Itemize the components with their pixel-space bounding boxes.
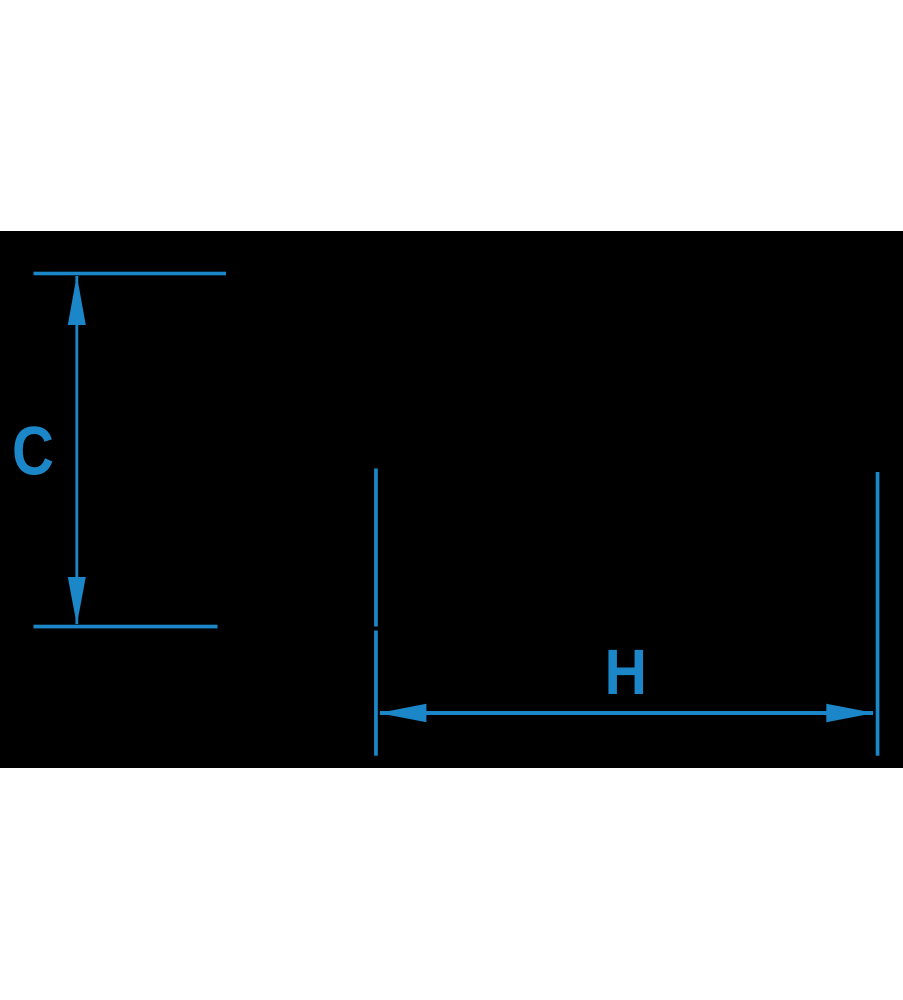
- black product band: [0, 231, 903, 768]
- H dimension left extension tick (upper part, above gap): [374, 469, 378, 627]
- C dimension top tick line: [34, 272, 227, 276]
- svg-text:C: C: [12, 414, 54, 490]
- svg-text:H: H: [605, 637, 648, 709]
- H dimension right extension tick: [876, 472, 880, 756]
- H dimension left arrowhead: [379, 704, 427, 723]
- H dimension left extension tick (lower part, below gap): [374, 631, 378, 756]
- H dimension right arrowhead: [826, 704, 874, 723]
- C dimension vertical shaft: [75, 276, 78, 624]
- C dimension top arrowhead: [68, 275, 86, 325]
- H dimension horizontal line: [380, 711, 873, 715]
- C dimension bottom arrowhead: [68, 577, 86, 625]
- C dimension bottom tick line: [34, 625, 218, 629]
